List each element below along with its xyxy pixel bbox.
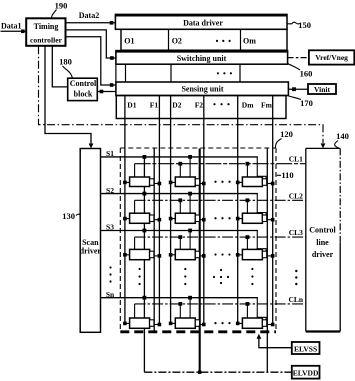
- svg-text:Data driver: Data driver: [183, 19, 223, 28]
- svg-text:180: 180: [59, 57, 72, 67]
- svg-text:Om: Om: [243, 37, 256, 46]
- svg-text:Timing: Timing: [34, 22, 59, 31]
- svg-text:Sensing unit: Sensing unit: [181, 84, 223, 93]
- svg-text:120: 120: [280, 129, 293, 139]
- svg-text:190: 190: [55, 1, 68, 11]
- svg-text:Switching unit: Switching unit: [177, 54, 227, 63]
- svg-text:170: 170: [300, 98, 313, 108]
- svg-text:D1: D1: [127, 101, 136, 110]
- svg-text:driver: driver: [80, 247, 102, 256]
- svg-text:Dm: Dm: [242, 101, 254, 110]
- svg-text:O2: O2: [172, 37, 182, 46]
- svg-text:Control: Control: [309, 226, 336, 235]
- svg-text:Control: Control: [70, 79, 97, 88]
- svg-text:S3: S3: [106, 223, 114, 232]
- svg-text:CL2: CL2: [289, 191, 303, 200]
- svg-text:S2: S2: [106, 186, 114, 195]
- svg-text:controller: controller: [30, 35, 63, 44]
- svg-text:ELVDD: ELVDD: [293, 368, 319, 377]
- svg-text:160: 160: [300, 68, 313, 78]
- svg-text:F1: F1: [150, 101, 159, 110]
- svg-text:D2: D2: [172, 101, 181, 110]
- svg-text:F2: F2: [195, 101, 204, 110]
- svg-text:Scan: Scan: [82, 238, 99, 247]
- svg-text:Vinit: Vinit: [314, 85, 330, 94]
- svg-text:CL1: CL1: [289, 155, 303, 164]
- svg-text:line: line: [316, 238, 329, 247]
- svg-text:O1: O1: [124, 37, 134, 46]
- svg-text:Data1: Data1: [1, 22, 21, 31]
- svg-text:Fm: Fm: [261, 101, 273, 110]
- svg-text:driver: driver: [312, 250, 334, 259]
- svg-text:130: 130: [62, 211, 75, 221]
- svg-text:150: 150: [298, 20, 311, 30]
- svg-text:Vref/Vneg: Vref/Vneg: [315, 53, 348, 62]
- svg-text:ELVSS: ELVSS: [294, 344, 317, 353]
- svg-text:Sn: Sn: [106, 290, 115, 299]
- svg-text:S1: S1: [106, 149, 114, 158]
- svg-text:140: 140: [336, 131, 349, 141]
- svg-text:block: block: [74, 90, 93, 99]
- svg-text:Data2: Data2: [79, 11, 99, 20]
- svg-text:CL3: CL3: [289, 228, 303, 237]
- svg-text:CLn: CLn: [289, 295, 304, 304]
- svg-text:110: 110: [281, 170, 293, 180]
